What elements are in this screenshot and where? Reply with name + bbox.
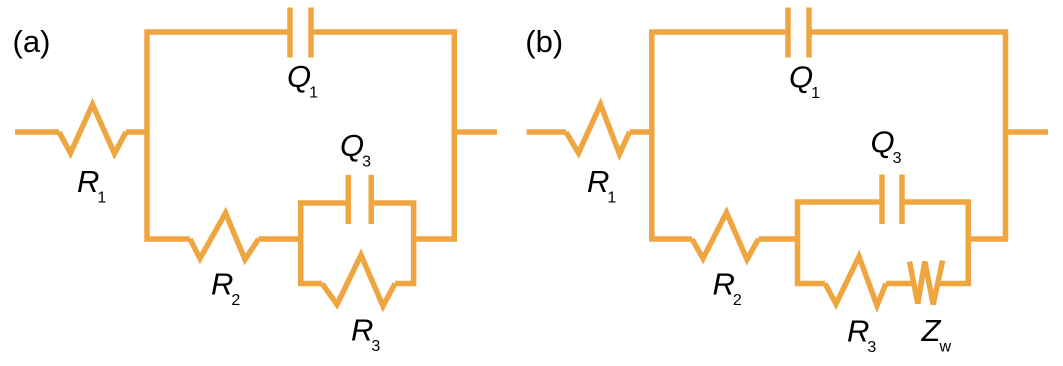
svg-text:R2: R2 [211,267,240,310]
wire stub to right vertical (a) [416,236,457,242]
svg-text:Q3: Q3 [871,125,902,168]
wire R1 to node (a) [126,129,150,135]
wire R2 to inner block (b) [759,236,801,242]
wire output lead (a) [457,129,497,135]
svg-text:R3: R3 [351,313,380,356]
capacitor Q1 left plate (b) [785,8,791,58]
resistor R2 (b) [692,213,759,260]
wire output lead (b) [1008,129,1048,135]
wire top rail left (b) [649,29,785,35]
wire R3 to Warburg (b) [886,281,914,287]
wire inner top rail right (b) [905,199,971,205]
wire input lead (a) [15,129,59,135]
wire top rail right (b) [812,29,1009,35]
svg-text:Zw: Zw [921,313,952,356]
capacitor Q3 right plate (a) [368,175,374,224]
wire top rail left (a) [145,29,288,35]
wire input lead (b) [527,129,566,135]
svg-text:Q3: Q3 [340,128,371,171]
capacitor Q1 right plate (b) [806,8,812,58]
wire inner left vertical (b) [795,200,801,287]
wire inner top rail left (a) [298,200,346,206]
svg-text:(b): (b) [525,24,563,59]
wire R1 to node (b) [630,129,655,135]
svg-text:Q1: Q1 [789,60,820,103]
wire inner bottom rail left (a) [298,281,322,287]
wire inner right vertical (a) [411,201,417,287]
capacitor Q3 left plate (b) [879,175,885,225]
wire bottom rail left (a) [145,236,191,242]
resistor R1 (b) [566,105,630,155]
svg-text:R2: R2 [713,267,742,310]
wire inner top rail right (a) [374,200,416,206]
wire right vertical (b) [1003,30,1009,242]
svg-text:R3: R3 [847,314,876,357]
resistor R3 (a) [322,255,395,306]
svg-text:(a): (a) [13,24,51,59]
wire inner top rail left (b) [795,199,880,205]
wire left vertical (a) [144,30,150,242]
wire bottom rail left (b) [649,236,692,242]
capacitor Q1 left plate (a) [287,8,293,58]
svg-text:R1: R1 [587,164,616,207]
wire inner bottom rail right (a) [395,281,416,287]
capacitor Q1 right plate (a) [308,8,314,58]
wire top rail right (a) [314,29,457,35]
wire R2 to inner block (a) [259,236,304,242]
wire inner bottom rail left (b) [795,281,825,287]
wire inner left vertical (a) [298,201,304,287]
wire stub to right vertical (b) [971,236,1008,242]
svg-text:R1: R1 [77,164,106,207]
wire right vertical (a) [452,30,458,242]
resistor R2 (a) [190,213,259,260]
svg-text:Q1: Q1 [287,59,318,102]
wire left vertical (b) [649,30,655,242]
Warburg element Zw (b) [910,261,943,305]
resistor R3 (b) [825,257,886,306]
capacitor Q3 right plate (b) [899,175,905,225]
resistor R1 (a) [59,105,126,154]
wire Warburg to inner right vertical (b) [938,281,971,287]
wire inner right vertical (b) [966,200,972,287]
capacitor Q3 left plate (a) [346,175,352,224]
